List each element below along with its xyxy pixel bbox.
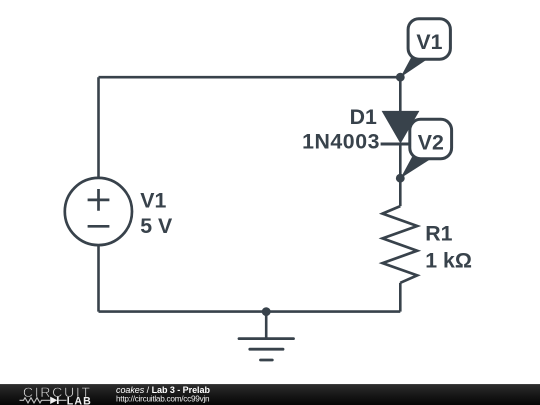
diode D1 cathode bar — [381, 143, 421, 146]
footer bar — [0, 384, 540, 405]
voltage source plus sign — [88, 189, 110, 211]
flag V2 tail — [400, 157, 433, 178]
voltage source minus sign — [88, 225, 110, 228]
wire bottom horizontal — [99, 310, 401, 313]
ground stub wire — [265, 312, 268, 339]
flag V1 box — [408, 19, 450, 60]
svg-text:1N4003: 1N4003 — [302, 129, 380, 153]
wire left vertical upper — [97, 77, 100, 178]
wire resistor to bottom — [399, 283, 402, 312]
svg-text:D1: D1 — [350, 105, 377, 129]
svg-text:V1: V1 — [140, 189, 166, 213]
voltage source V1 circle — [65, 178, 132, 245]
svg-text:V2: V2 — [418, 131, 444, 155]
logo schematic resistor — [20, 398, 51, 403]
flag V2 box — [410, 119, 452, 158]
node junction dot ground — [262, 307, 271, 316]
wire diode to resistor — [399, 144, 402, 206]
logo diode symbol — [50, 397, 57, 404]
ground symbol — [239, 339, 294, 360]
resistor R1 zigzag — [383, 206, 418, 283]
node dot V2 — [396, 174, 405, 183]
svg-text:LAB: LAB — [67, 395, 92, 405]
wire top horizontal — [99, 76, 401, 79]
wire left vertical lower — [97, 245, 100, 312]
svg-text:1 kΩ: 1 kΩ — [425, 249, 472, 273]
svg-text:http://circuitlab.com/cc99vjn: http://circuitlab.com/cc99vjn — [116, 395, 210, 404]
wire right vertical upper — [399, 77, 402, 112]
node dot V1 — [396, 73, 405, 82]
flag V1 tail — [400, 58, 429, 78]
svg-text:V1: V1 — [416, 30, 442, 54]
svg-text:5 V: 5 V — [140, 214, 173, 238]
diode D1 triangle — [382, 111, 420, 144]
svg-text:R1: R1 — [425, 222, 452, 246]
